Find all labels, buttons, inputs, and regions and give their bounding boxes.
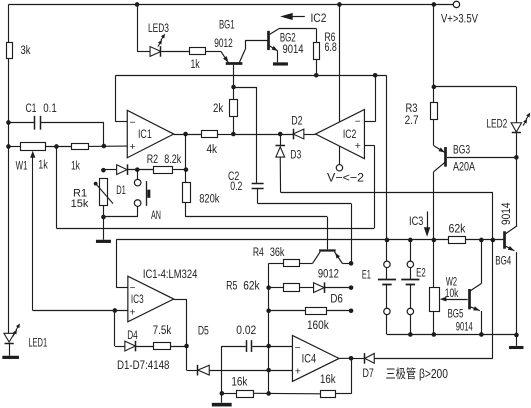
arrow W2 wiper	[440, 297, 447, 302]
wire E2 mid bottom	[410, 284, 412, 308]
LED2 emission arrows	[523, 113, 530, 126]
terminal V+ supply	[453, 1, 459, 7]
transistor BG4 emitter	[505, 246, 514, 251]
label R6 value 6.8	[324, 40, 336, 54]
label transistor beta note	[385, 366, 448, 381]
resistor R2	[154, 167, 173, 174]
wire left rail upper	[8, 4, 10, 42]
wire IC2 noninverting input	[364, 145, 374, 147]
node junction BG3/W2/rail	[432, 238, 437, 243]
node junction R2/820k	[184, 167, 189, 172]
svg-text:1k: 1k	[71, 158, 81, 172]
wire left rail lower	[8, 146, 10, 333]
label W1 value 1k	[38, 157, 48, 171]
svg-text:−: −	[355, 117, 361, 128]
wire 0.02 left lead	[222, 346, 246, 348]
svg-text:BG4: BG4	[495, 254, 511, 268]
ground BG2 emitter	[273, 62, 288, 65]
label E1	[362, 268, 371, 282]
svg-text:LED1: LED1	[28, 335, 47, 349]
transistor BG4 collector	[505, 226, 517, 234]
label R1	[73, 188, 87, 200]
ground 0.02/16k	[212, 403, 232, 407]
label IC1	[138, 127, 152, 141]
wire node to D2	[233, 134, 293, 136]
wire IC3 noninverting row	[33, 310, 128, 312]
svg-text:0.2: 0.2	[230, 179, 242, 193]
wire BG2 collector to R6	[279, 28, 317, 30]
wire AN bottom lead	[137, 206, 139, 217]
wire to D4	[115, 346, 125, 348]
node junction top-LED3 branch	[135, 2, 140, 7]
wire left rail middle	[8, 59, 10, 147]
diode D6	[314, 282, 325, 293]
svg-text:820k: 820k	[199, 192, 220, 206]
wire IC4 output	[339, 357, 351, 359]
wire W1 to 1k	[45, 146, 72, 148]
wire node to C2 branch	[234, 87, 257, 89]
transistor BG5 emitter	[469, 306, 480, 310]
wire D3 bottom run	[281, 192, 493, 194]
label R3	[405, 101, 417, 115]
transistor BG3 base bar	[444, 147, 447, 167]
resistor 820k	[183, 183, 191, 203]
resistor 16k feedback	[321, 391, 336, 398]
transistor BG2 emitter	[269, 45, 278, 50]
annotation arrow IC3 down	[424, 211, 430, 236]
label D5	[198, 323, 209, 337]
wire C2 branch down x350	[351, 203, 353, 263]
svg-text:D1-D7:4148: D1-D7:4148	[117, 358, 170, 372]
wire IC4 inverting input	[269, 346, 293, 348]
resistor 2k	[230, 100, 238, 117]
resistor 36k	[284, 260, 300, 267]
label C2 value 0.2	[230, 179, 242, 193]
label BG4	[495, 254, 511, 268]
wire gnd to 16k	[222, 393, 237, 395]
label C2	[228, 169, 239, 183]
wire 0.02 right lead	[252, 346, 268, 348]
wire W2 bottom lead	[433, 311, 435, 334]
svg-text:D5: D5	[198, 323, 209, 337]
svg-text:10k: 10k	[445, 286, 459, 300]
svg-text:LED2: LED2	[486, 116, 507, 130]
wire E1 bottom lead	[386, 315, 388, 335]
ground right	[509, 346, 523, 349]
transistor BG5 emitter arrow	[473, 306, 480, 310]
node junction x268/R5	[266, 285, 271, 290]
ground R1	[96, 240, 111, 243]
svg-text:7.5k: 7.5k	[153, 323, 172, 337]
wire feedback bus y75	[116, 75, 387, 77]
transistor BG1 collector	[239, 40, 246, 63]
svg-text:E1: E1	[362, 268, 371, 282]
wire C2 bottom lead	[257, 189, 259, 204]
svg-text:−: −	[130, 283, 136, 294]
node junction LED2/BG3 base	[514, 155, 519, 160]
wire R6 top	[316, 29, 318, 43]
svg-text:D4: D4	[127, 328, 138, 342]
node junction top V- branch	[337, 2, 342, 7]
label BG3 A20A	[453, 159, 476, 173]
svg-text:V+>3.5V: V+>3.5V	[441, 12, 479, 26]
svg-text:−: −	[295, 343, 301, 354]
diode D5	[198, 365, 210, 376]
label 16k feedback	[320, 372, 336, 386]
label IC1 plus	[129, 141, 135, 153]
label R4 value 36k	[270, 245, 285, 259]
op-amp IC4	[292, 335, 339, 381]
node junction D3-D7 riser	[491, 238, 496, 243]
svg-text:+: +	[129, 141, 135, 153]
svg-text:16k: 16k	[320, 372, 336, 386]
op-amp IC3	[128, 276, 174, 322]
wire 16k fb to corner	[336, 393, 351, 395]
label 2k	[213, 101, 224, 115]
wire LED3 to 1k	[162, 51, 190, 53]
svg-text:IC3: IC3	[409, 214, 423, 228]
label 160k	[307, 318, 329, 332]
wire 4k to node	[218, 134, 234, 136]
wire column top corner to 36k	[269, 263, 284, 265]
node junction x268/D5	[266, 368, 271, 373]
wire feedback bus corner down	[115, 75, 117, 122]
label IC3 minus	[130, 283, 136, 294]
wire fb corner up to IC4 out	[351, 358, 353, 394]
wire node to 16k fb	[269, 392, 321, 394]
label R5	[226, 278, 237, 292]
resistor R1	[100, 179, 108, 206]
svg-text:D6: D6	[330, 292, 343, 306]
wire R5 to D6	[300, 287, 314, 289]
diode D2	[293, 129, 304, 140]
capacitor C1	[35, 116, 41, 130]
annotation arrow to IC2	[280, 13, 305, 20]
wire column x268	[268, 263, 270, 393]
wire riser x492 up	[492, 192, 494, 240]
label IC1 minus	[130, 118, 136, 129]
wire 820k bottom	[185, 203, 187, 217]
label R6	[324, 30, 335, 44]
switch AN bottom contact	[134, 200, 141, 207]
label C1	[25, 101, 36, 115]
wire IC3 output	[174, 299, 187, 301]
transistor BG2 collector	[269, 29, 279, 35]
wire V- vertical	[339, 4, 341, 164]
node junction left rail/W1	[6, 144, 11, 149]
svg-text:R5: R5	[226, 278, 237, 292]
arrow W1 wiper	[30, 151, 35, 158]
node junction x268/160k	[266, 308, 271, 313]
node junction 16k/ground	[220, 391, 225, 396]
label R5 value 62k	[243, 278, 260, 292]
transistor BG4 emitter arrow	[508, 246, 515, 251]
node junction E2 top	[408, 238, 413, 243]
node junction x350/36k row	[349, 261, 354, 266]
label IC3 plus	[129, 306, 135, 318]
svg-text:0.02: 0.02	[236, 323, 256, 337]
svg-text:IC4: IC4	[302, 351, 317, 365]
label IC4 minus	[295, 343, 301, 354]
node junction IC4 output	[349, 356, 354, 361]
node junction AN top	[135, 167, 140, 172]
LED LED3	[150, 46, 161, 57]
wire R5 left	[269, 287, 284, 289]
node junction left rail/C1	[6, 120, 11, 125]
label BG4 9014 vertical	[499, 202, 513, 225]
svg-text:4k: 4k	[206, 142, 217, 156]
transistor BG5 collector	[469, 284, 481, 292]
wire D4 branch down	[114, 310, 116, 346]
label R1 value 15k	[71, 198, 89, 210]
svg-text:LED3: LED3	[148, 21, 169, 35]
label W1	[16, 158, 28, 172]
wire 7.5k to node	[170, 346, 186, 348]
wire IC2+ down to bus	[374, 145, 376, 228]
label E2	[416, 266, 426, 280]
label IC2 minus	[355, 117, 361, 128]
wire BG4 emitter down	[516, 252, 518, 335]
wire to LED3	[137, 51, 150, 53]
wire D1 to R2	[127, 169, 153, 171]
wire AN top lead	[137, 170, 139, 180]
transistor BG4 base bar	[503, 231, 506, 249]
wire LED2 bottom lead	[516, 133, 518, 157]
transistor BG1 emitter	[221, 51, 228, 62]
wire 160k right	[326, 310, 351, 312]
node junction feedback bus/IC2-	[373, 73, 378, 78]
svg-text:−: −	[130, 118, 136, 129]
wire IC2 inverting input	[364, 121, 375, 123]
wire 2k top	[233, 87, 235, 99]
label IC1-4:LM324	[143, 267, 198, 281]
wire BG5 collector up	[481, 240, 483, 284]
resistor R3	[431, 103, 438, 120]
label W2 value 10k	[445, 286, 459, 300]
node junction x268/16k	[266, 391, 271, 396]
label W2	[446, 275, 457, 289]
wire R2 to 820k node	[173, 169, 186, 171]
wire 0.02 ground branch	[221, 346, 223, 403]
potentiometer W1 body	[21, 143, 46, 151]
svg-text:1k: 1k	[190, 57, 200, 71]
svg-text:9014: 9014	[499, 202, 513, 225]
wire bus y75 corner down x386	[386, 75, 388, 240]
node junction x268/0.02	[266, 344, 271, 349]
transistor BG2 emitter arrow	[272, 46, 278, 51]
capacitor E2 top terminal	[407, 261, 413, 267]
wire IC3 output down	[186, 299, 188, 370]
label AN	[151, 208, 161, 222]
node junction E2 bottom	[408, 332, 413, 337]
resistor R5	[284, 284, 300, 292]
svg-text:62k: 62k	[243, 278, 260, 292]
label V- < -2	[327, 171, 364, 185]
wire V+ branch down	[433, 4, 435, 86]
resistor 16k left	[237, 391, 254, 398]
label LED3	[148, 21, 169, 35]
wire W1 wiper vertical	[32, 154, 34, 311]
transistor 9012-2 base bar	[319, 249, 336, 251]
resistor 1k input	[72, 144, 89, 150]
transistor BG5 base bar	[468, 289, 471, 309]
wire into IC3 inverting	[116, 287, 128, 289]
wire D4 to 7.5k	[136, 346, 153, 348]
svg-text:D2: D2	[291, 114, 302, 128]
svg-text:D1: D1	[116, 183, 126, 197]
svg-text:AN: AN	[151, 208, 161, 222]
label R3 value 2.7	[405, 113, 419, 127]
transistor 9012-2 collector	[313, 252, 321, 264]
resistor R1 arrow diagonal	[94, 182, 113, 204]
wire E2 top lead	[410, 240, 412, 261]
node junction bottom bus right	[514, 333, 519, 338]
wire BG4 collector rail	[516, 157, 518, 225]
label BG5 9014	[456, 319, 473, 333]
op-amp IC2	[315, 109, 364, 158]
svg-text:BG3: BG3	[453, 142, 470, 156]
svg-text:8.2k: 8.2k	[164, 152, 182, 166]
node junction BG5 emitter	[479, 332, 484, 337]
svg-text:3k: 3k	[20, 43, 31, 57]
switch AN button bar	[147, 181, 151, 206]
label 4k	[206, 142, 217, 156]
wire R1 top to D1	[103, 169, 116, 171]
label 62k	[448, 221, 466, 235]
wire E2 mid top	[410, 268, 412, 280]
wire BG3 collector down	[433, 172, 435, 240]
potentiometer W2 body	[430, 288, 440, 312]
wire top supply rail	[8, 4, 455, 6]
wire BG1 base down	[233, 65, 235, 87]
wire IC4 out to D7	[351, 358, 365, 360]
label V+>3.5V	[441, 12, 479, 26]
label C1 value 0.1	[43, 101, 57, 115]
switch AN top contact	[134, 179, 141, 186]
node junction V+/R3/LED2	[432, 85, 437, 90]
wire D3 top lead	[280, 134, 282, 146]
label LED2	[486, 116, 507, 130]
svg-text:E2: E2	[416, 266, 426, 280]
label BG2 9014	[282, 42, 303, 56]
wire bottom bus left segment	[387, 334, 517, 336]
transistor 9012-2 emitter arrow	[335, 253, 340, 259]
svg-text:R2: R2	[147, 152, 159, 166]
node junction top V+ branch	[432, 2, 437, 7]
label IC2	[343, 127, 357, 141]
wire BG2 emitter down	[277, 51, 279, 63]
wire C1 left	[8, 122, 34, 124]
svg-text:160k: 160k	[307, 318, 329, 332]
capacitor E1 bottom terminal	[384, 308, 390, 314]
wire 36k to 9012 collector	[300, 263, 313, 265]
svg-text:16k: 16k	[231, 374, 248, 388]
wire R6 bottom	[316, 59, 318, 75]
wire R1 to ground	[103, 217, 105, 240]
wire 1k to BG1 emitter	[206, 51, 221, 53]
node junction R6/feedback bus	[314, 73, 319, 78]
resistor 1k LED3	[190, 48, 206, 55]
label BG5	[447, 307, 463, 321]
wire LED3 branch down	[137, 4, 139, 51]
wire BG1 collector to BG2 base	[245, 40, 268, 42]
label R2	[147, 152, 159, 166]
wire W2 top lead	[433, 240, 435, 288]
wire C1 right	[41, 122, 104, 124]
wire 820k to 9012 base run	[186, 216, 327, 218]
diode D7	[365, 353, 375, 364]
wire W1 row left	[8, 146, 20, 148]
svg-text:R4: R4	[253, 245, 264, 259]
wire D5 to IC4+ node	[209, 370, 292, 372]
wire R3 to BG3 emitter	[433, 119, 435, 146]
wire 1k to IC1 noninverting	[88, 145, 127, 147]
wire riser x492 down	[492, 240, 494, 358]
wire 2k bottom	[233, 116, 235, 134]
wire IC3 out corner to D5	[187, 370, 198, 372]
svg-text:+: +	[129, 306, 135, 318]
svg-text:1k: 1k	[38, 157, 48, 171]
node junction x350/D6 row	[349, 285, 354, 290]
svg-text:9014: 9014	[456, 319, 473, 333]
wire IC1 output	[174, 134, 202, 136]
node IC1 output junction	[183, 132, 188, 137]
label annotation IC3	[409, 214, 423, 228]
resistor R6	[314, 43, 320, 60]
wire E1 mid bottom	[386, 284, 388, 308]
wire 16k to node	[254, 392, 269, 394]
node junction IC3+/D4 branch	[113, 308, 118, 313]
resistor 62k	[449, 237, 466, 244]
resistor 7.5k	[154, 343, 171, 350]
svg-text:IC2: IC2	[310, 11, 326, 25]
svg-text:D3: D3	[290, 148, 301, 162]
wire D3 bottom lead	[279, 157, 281, 192]
resistor 3k	[7, 43, 13, 59]
svg-text:IC2: IC2	[343, 127, 357, 141]
wire 9012 emitter to node	[342, 263, 351, 265]
label BG1	[219, 17, 235, 31]
wire feedback branch vertical x56	[56, 146, 58, 228]
wire LED1 bottom	[9, 343, 11, 355]
label annotation IC2	[310, 11, 326, 25]
capacitor C2	[252, 184, 264, 189]
svg-text:2k: 2k	[213, 101, 224, 115]
svg-text:D7: D7	[362, 366, 374, 380]
wire 820k top	[185, 170, 187, 183]
capacitor E1 top terminal	[384, 261, 390, 267]
svg-text:BG1: BG1	[219, 17, 235, 31]
node junction BG5 collector	[479, 238, 484, 243]
wire to right ground	[516, 335, 518, 346]
wire bias bus y228	[56, 228, 374, 230]
wire W2 wiper lead	[444, 299, 468, 301]
svg-text:9014: 9014	[282, 42, 303, 56]
node junction 4k/2k	[231, 132, 236, 137]
svg-text:A20A: A20A	[453, 159, 476, 173]
node junction R1 bottom	[101, 215, 106, 220]
transistor BG1 base bar	[226, 62, 243, 65]
label 3k	[20, 43, 31, 57]
node junction W2 bottom	[432, 332, 437, 337]
ground LED1	[2, 356, 19, 359]
wire C2 branch down	[256, 87, 258, 183]
wire D7 run	[374, 358, 493, 360]
resistor 160k	[306, 308, 327, 315]
transistor BG1 emitter arrow	[223, 56, 228, 62]
wire LED2 top lead	[516, 87, 518, 123]
wire into IC1 inverting input	[116, 121, 128, 123]
